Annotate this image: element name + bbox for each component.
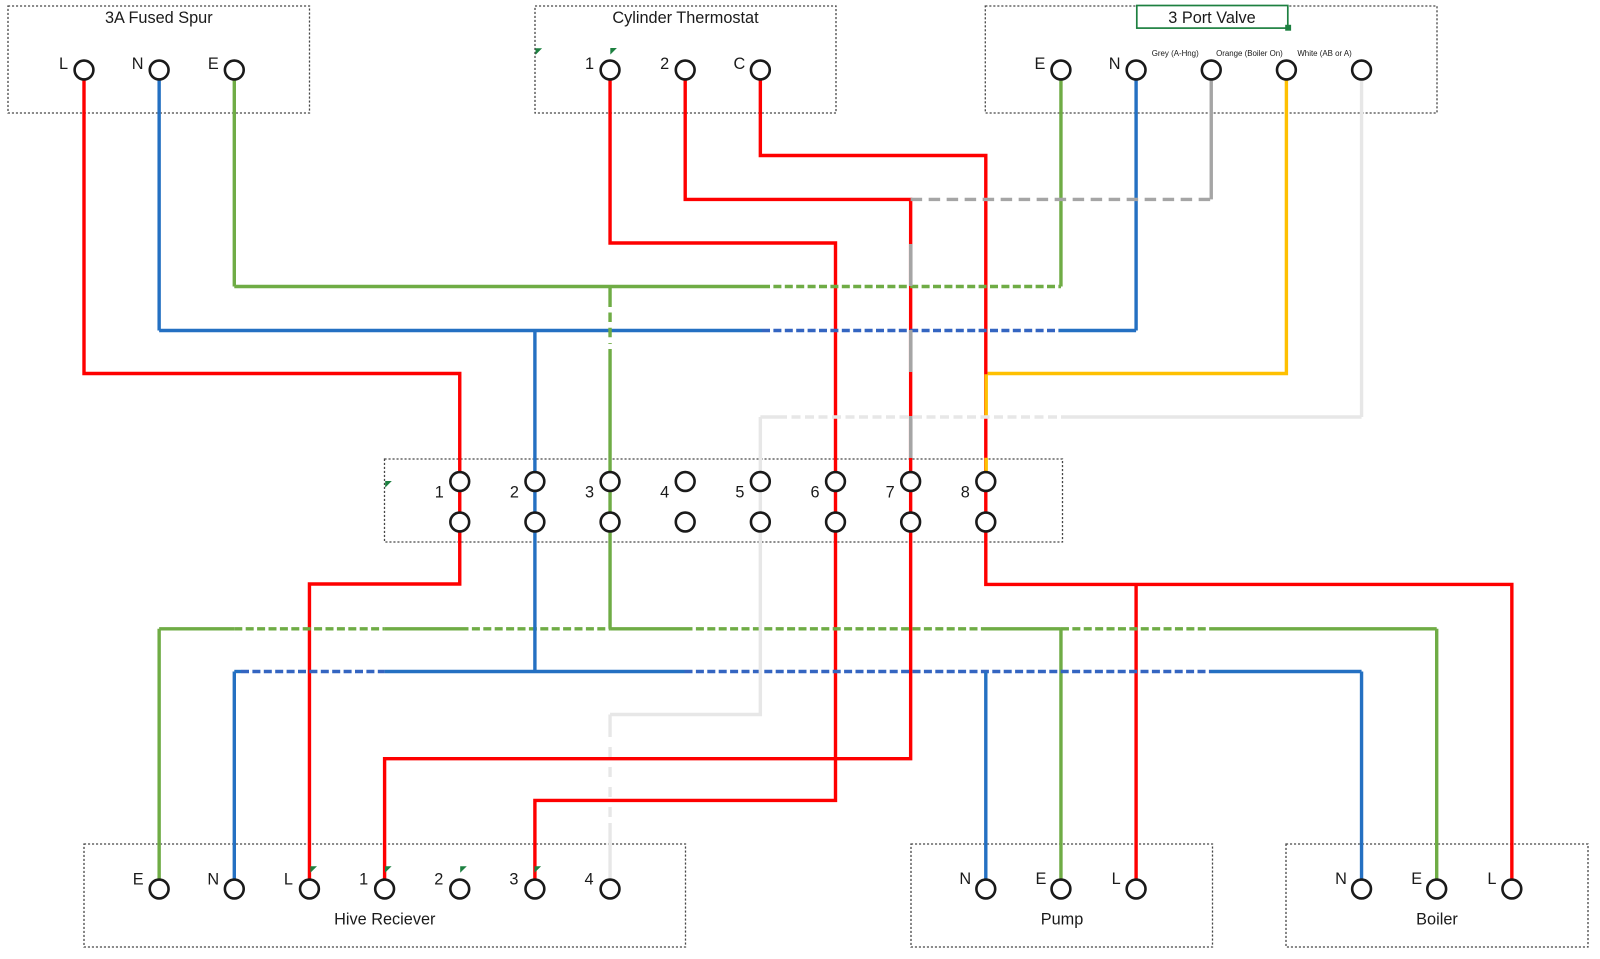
junction terminal 4 upper: [676, 472, 695, 491]
terminal Grey A-Hng (3 Port Valve): [1202, 61, 1221, 80]
junction terminal 6 lower: [826, 513, 845, 532]
svg-text:L: L: [1112, 870, 1121, 888]
terminal N (Hive Reciever): [225, 880, 244, 899]
terminal N (3A Fused Spur): [150, 61, 169, 80]
junction terminal 8 lower: [976, 513, 995, 532]
junction terminal 6 upper: [826, 472, 845, 491]
wire Hive 4 vertical solid top (white): [608, 715, 611, 738]
wire N bus solid segment b (blue): [385, 670, 685, 673]
svg-text:N: N: [1109, 55, 1121, 73]
junction terminal 2 lower: [526, 513, 545, 532]
wire Hive 4 vertical dashed part (white): [608, 747, 611, 823]
junction terminal 8 upper: [976, 472, 995, 491]
terminal E (Pump): [1052, 880, 1071, 899]
svg-text:C: C: [733, 55, 745, 73]
svg-text:Orange (Boiler On): Orange (Boiler On): [1216, 49, 1283, 58]
svg-text:Cylinder Thermostat: Cylinder Thermostat: [612, 9, 759, 27]
wire white horizontal dashed segment (white): [778, 415, 1061, 418]
Pump box: [911, 844, 1213, 947]
wire junction 3 top branch solid part (green): [608, 287, 611, 308]
svg-text:8: 8: [961, 483, 970, 501]
wire N bus corner nub (blue): [234, 670, 241, 673]
svg-text:3: 3: [585, 483, 594, 501]
wire junction 3 top branch dashed part (green): [608, 313, 611, 345]
wire N bus solid segment c (blue): [1211, 670, 1362, 673]
terminal N (3 Port Valve): [1127, 61, 1146, 80]
terminal 1 (Cylinder Thermostat): [601, 61, 620, 80]
svg-text:Grey (A-Hng): Grey (A-Hng): [1152, 49, 1199, 58]
svg-text:N: N: [207, 870, 219, 888]
svg-text:2: 2: [660, 55, 669, 73]
svg-text:N: N: [132, 55, 144, 73]
svg-text:E: E: [208, 55, 219, 73]
svg-text:1: 1: [359, 870, 368, 888]
junction terminal 7 upper: [901, 472, 920, 491]
terminal L (Pump): [1127, 880, 1146, 899]
junction terminal 5 upper: [751, 472, 770, 491]
wire junction 8 to Boiler L (red): [986, 522, 1512, 879]
wire E bus dashed segment b (green): [461, 627, 611, 630]
junction box: [385, 459, 1063, 542]
junction terminal 2 upper: [526, 472, 545, 491]
junction terminal 7 lower: [901, 513, 920, 532]
terminal E (Boiler): [1427, 880, 1446, 899]
wire E bus dashed segment c (green): [685, 627, 988, 630]
terminal N (Pump): [976, 880, 995, 899]
comment marker (Hive L): [310, 866, 317, 873]
comment marker (Hive 1): [385, 866, 392, 873]
wire E bus top dashed segment (green): [762, 285, 1061, 288]
terminal N (Boiler): [1352, 880, 1371, 899]
svg-text:3 Port Valve: 3 Port Valve: [1168, 9, 1255, 27]
3 Port Valve title cell (green box): [1137, 6, 1291, 31]
svg-text:6: 6: [810, 483, 819, 501]
wire N bus top solid segment (blue): [159, 329, 762, 332]
wire E bus top solid segment (green): [234, 285, 762, 288]
terminal 4 (Hive Reciever): [601, 880, 620, 899]
comment marker (thermostat terminal 1): [610, 48, 617, 55]
wire valve Grey (A-Hng) vertical (grey): [1210, 70, 1213, 199]
wire Boiler N vertical (blue): [1360, 672, 1363, 879]
wire N bus top right solid segment (blue): [1059, 329, 1136, 332]
svg-text:Hive Reciever: Hive Reciever: [334, 910, 436, 928]
svg-text:4: 4: [660, 483, 669, 501]
svg-text:N: N: [1335, 870, 1347, 888]
wire valve N vertical (blue): [1134, 70, 1137, 331]
svg-text:E: E: [1411, 870, 1422, 888]
svg-text:E: E: [1035, 55, 1046, 73]
junction terminal 1 lower: [450, 513, 469, 532]
wire Pump N vertical (blue): [984, 672, 987, 879]
wire Pump E vertical (green): [1059, 629, 1062, 879]
terminal E (3 Port Valve): [1052, 61, 1071, 80]
wire valve White (AB or A) vertical (white): [1360, 70, 1363, 417]
wire grey dashed horizontal to junction 7 (grey): [911, 198, 1212, 201]
svg-text:White (AB or A): White (AB or A): [1297, 49, 1352, 58]
wire junction 7 to Hive 1 (red): [385, 522, 911, 879]
wire fused-spur E vertical (green): [233, 70, 236, 287]
wire Hive N vertical (blue): [233, 672, 236, 879]
wire orange dashed overlay on junction 8 drop (orange): [984, 374, 988, 471]
junction terminal 4 lower: [676, 513, 695, 532]
3 Port Valve box: [985, 6, 1437, 113]
svg-text:7: 7: [886, 483, 895, 501]
terminal L (3A Fused Spur): [75, 61, 94, 80]
terminal 1 (Hive Reciever): [375, 880, 394, 899]
wire white corner into junction 5 (white): [760, 417, 778, 522]
wire junction 6 to Hive 3 (red): [535, 522, 836, 879]
wire junction 2 top branch (blue): [533, 331, 536, 523]
svg-text:Boiler: Boiler: [1416, 910, 1458, 928]
comment marker (Hive 2): [460, 866, 467, 873]
svg-text:4: 4: [585, 870, 594, 888]
wire N bus dashed segment a (blue): [241, 670, 385, 673]
svg-text:5: 5: [735, 483, 744, 501]
wire junction 3 top branch lower solid part (green): [608, 349, 611, 522]
svg-text:E: E: [1036, 870, 1047, 888]
wire E bus solid segment a (green): [159, 627, 234, 630]
wire E bus solid segment d (green): [987, 627, 1061, 630]
terminal 3 (Hive Reciever): [526, 880, 545, 899]
terminal E (Hive Reciever): [150, 880, 169, 899]
svg-text:L: L: [284, 870, 293, 888]
wire E bus dashed segment a (green): [234, 627, 384, 630]
wire thermostat C to junction 8 (red): [760, 70, 985, 522]
terminal 2 (Hive Reciever): [450, 880, 469, 899]
wire Hive E vertical (green): [157, 629, 160, 879]
wire Pump L branch (red): [1134, 584, 1137, 878]
wire thermostat 1 to junction 6 (red): [610, 70, 835, 522]
svg-text:2: 2: [510, 483, 519, 501]
wire fused-spur N vertical (blue): [157, 70, 160, 331]
svg-text:1: 1: [585, 55, 594, 73]
junction terminal 5 lower: [751, 513, 770, 532]
wire N bus dashed segment b (blue): [685, 670, 1211, 673]
comment marker (junction box edge): [385, 481, 392, 488]
wire thermostat 2 to junction 7 (red): [685, 70, 910, 522]
junction terminal 1 upper: [450, 472, 469, 491]
wire junction 3 bottom drop (green): [608, 522, 611, 629]
wire E bus solid segment c (green): [610, 627, 684, 630]
wire Boiler E vertical (green): [1435, 629, 1438, 879]
svg-text:Pump: Pump: [1041, 910, 1084, 928]
svg-text:3A Fused Spur: 3A Fused Spur: [105, 9, 213, 27]
svg-text:2: 2: [434, 870, 443, 888]
wire valve Orange (Boiler On) to junction 8 (orange): [988, 70, 1287, 374]
terminal White AB-or-A (3 Port Valve): [1352, 61, 1371, 80]
comment marker (Hive 3): [535, 866, 542, 873]
wire grey dashed overlay on junction 7 drop (grey): [909, 244, 913, 458]
wire fused-spur L to junction 1 (red): [84, 70, 460, 522]
terminal E (3A Fused Spur): [225, 61, 244, 80]
wire N bus top dashed segment (blue): [762, 329, 1059, 332]
comment marker (thermostat box edge): [536, 48, 543, 55]
junction terminal 3 lower: [601, 513, 620, 532]
junction terminal 3 upper: [601, 472, 620, 491]
svg-text:3: 3: [509, 870, 518, 888]
svg-text:N: N: [959, 870, 971, 888]
svg-text:1: 1: [435, 483, 444, 501]
wire valve E vertical (green): [1059, 70, 1062, 287]
terminal C (Cylinder Thermostat): [751, 61, 770, 80]
Cylinder Thermostat box: [535, 6, 836, 113]
terminal L (Hive Reciever): [300, 880, 319, 899]
wire E bus dashed segment d (green): [1061, 627, 1211, 630]
wire E bus solid segment e (green): [1211, 627, 1437, 630]
svg-text:L: L: [59, 55, 68, 73]
wire junction 2 bottom drop (blue): [533, 522, 536, 672]
3A Fused Spur box: [8, 6, 310, 113]
wire Hive 4 vertical solid bottom (white): [608, 823, 611, 879]
svg-text:E: E: [133, 870, 144, 888]
svg-text:L: L: [1487, 870, 1496, 888]
wire E bus solid segment b (green): [385, 627, 461, 630]
wire junction 1 to Hive L (red): [309, 522, 459, 879]
Boiler box: [1286, 844, 1588, 947]
terminal 2 (Cylinder Thermostat): [676, 61, 695, 80]
terminal L (Boiler): [1502, 880, 1521, 899]
wire white horizontal solid segment (white): [1061, 415, 1362, 418]
Hive Reciever box: [84, 844, 686, 947]
wire junction 5 bottom drop (white): [610, 522, 760, 715]
terminal Orange Boiler-On (3 Port Valve): [1277, 61, 1296, 80]
